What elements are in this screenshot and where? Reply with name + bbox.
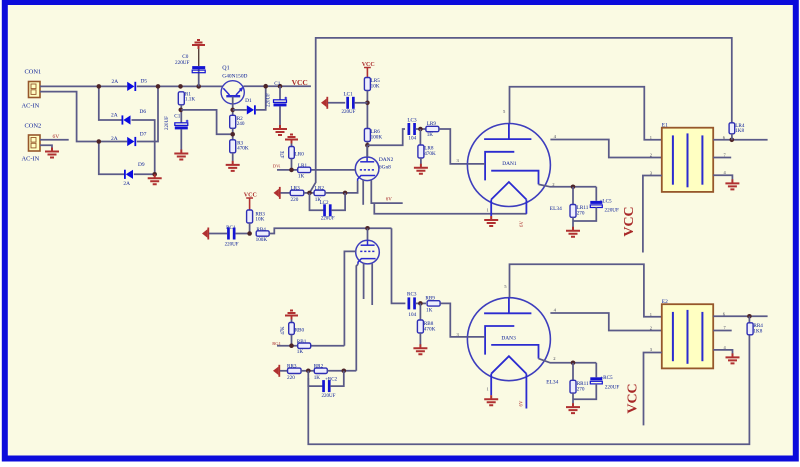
- svg-text:6V: 6V: [520, 221, 525, 227]
- wire C1b to ground: [279, 106, 281, 125]
- svg-text:220UF: 220UF: [605, 384, 620, 390]
- wire E2 pin3 down: [644, 353, 662, 426]
- wire port to LC1: [328, 102, 345, 104]
- svg-text:470K: 470K: [424, 151, 436, 157]
- svg-text:1K8: 1K8: [753, 328, 762, 334]
- svg-text:CON2: CON2: [25, 123, 42, 130]
- wire C1b stub: [279, 86, 281, 100]
- ground C1 output: [273, 125, 287, 135]
- svg-text:VCC: VCC: [626, 383, 641, 413]
- connector CON1: [29, 82, 41, 98]
- ground E1 pin4: [725, 179, 739, 189]
- power symbol above C0: [192, 40, 205, 49]
- wire C1 to ground: [180, 129, 182, 150]
- svg-text:104: 104: [408, 136, 416, 142]
- wire DAN2 heater right: [371, 180, 402, 203]
- wire RR11 stub: [572, 363, 574, 381]
- svg-text:1K: 1K: [297, 349, 304, 355]
- wire DAN3 grid stub: [467, 336, 485, 338]
- wire RB0 to grid row: [291, 335, 293, 346]
- junction RR11 top: [571, 361, 576, 366]
- resistor LR6: [364, 129, 370, 142]
- wire RB0 top: [291, 320, 293, 323]
- junction C0 tap: [196, 84, 201, 89]
- svg-text:220UF: 220UF: [605, 207, 620, 213]
- transformer E1: [662, 128, 713, 192]
- wire DAN1 anode loop: [510, 87, 662, 140]
- wire AC2 drop to D9: [99, 142, 124, 175]
- wire R1 to C1: [180, 105, 182, 123]
- svg-text:220UF: 220UF: [175, 60, 190, 66]
- wire D5 out: [137, 85, 181, 87]
- connector CON2: [29, 135, 41, 151]
- wire LC5 bottom: [573, 207, 596, 221]
- svg-text:AC-IN: AC-IN: [22, 103, 40, 110]
- svg-text:6V: 6V: [386, 198, 393, 203]
- wire DAN2 heater left: [362, 180, 364, 205]
- wire RR11 bottom: [572, 393, 574, 403]
- junction LR3 LR2: [307, 191, 312, 196]
- wire DAN1 g2 to E1 pin2: [550, 140, 661, 158]
- svg-text:2A: 2A: [111, 136, 118, 142]
- wire DAN3 anode loop: [510, 264, 662, 317]
- wire RR4 stub: [748, 316, 750, 323]
- resistor LR9: [426, 126, 439, 131]
- wire divider feedback: [181, 110, 232, 134]
- junction plate node lower: [365, 226, 370, 231]
- wire C0 stub: [198, 68, 200, 86]
- svg-text:470K: 470K: [424, 327, 436, 333]
- svg-text:10K: 10K: [371, 84, 380, 90]
- svg-text:DAN1: DAN1: [502, 161, 517, 167]
- capacitor LC1: [346, 97, 354, 109]
- svg-text:D9: D9: [138, 162, 145, 168]
- wire RC5 bottom: [573, 384, 596, 400]
- tube DAN3: [467, 298, 550, 409]
- svg-text:D1: D1: [245, 98, 252, 104]
- wire E1 pin7 out: [713, 157, 731, 159]
- capacitor LC5: [590, 201, 602, 208]
- svg-text:G40N150D: G40N150D: [222, 73, 247, 79]
- wire CON2 pin1 6V: [40, 139, 69, 141]
- ground DAN1 heater: [484, 216, 498, 226]
- port input lower: [202, 228, 209, 240]
- wire DAN3 cathode out: [539, 359, 597, 363]
- wire DAN2 plate up: [366, 145, 368, 157]
- wire E2 pin6 out: [713, 315, 767, 317]
- svg-text:2: 2: [650, 153, 652, 158]
- diode D9: [124, 170, 133, 179]
- resistor R2: [230, 115, 236, 128]
- wire E1 pin6 out: [713, 139, 767, 141]
- port lower cathode: [273, 365, 280, 377]
- svg-text:1K: 1K: [298, 173, 305, 179]
- svg-text:6Gn8: 6Gn8: [379, 165, 391, 171]
- wire D7 up to output: [137, 86, 158, 141]
- wire LR11 stub: [572, 187, 574, 205]
- ground LR11: [566, 227, 580, 237]
- transistor Q1: [221, 81, 244, 104]
- svg-text:220: 220: [287, 375, 295, 381]
- wire LC5 stub: [595, 187, 597, 201]
- wire DAN4 grid: [344, 251, 355, 345]
- wire R2 to R3: [232, 128, 234, 140]
- wire RR3 to RR2: [301, 370, 314, 372]
- resistor LR5: [364, 78, 370, 91]
- resistor RR3: [288, 368, 302, 373]
- wire E1 pin3 down: [643, 176, 662, 253]
- junction RC3 RB9: [418, 301, 423, 306]
- svg-text:6V: 6V: [519, 400, 524, 406]
- capacitor RC1: [227, 228, 235, 240]
- svg-text:220UF: 220UF: [225, 243, 239, 248]
- svg-text:1K: 1K: [427, 132, 434, 138]
- ground LR8: [414, 164, 428, 174]
- tube DAN4: [356, 240, 380, 264]
- wire RC5 stub: [595, 363, 597, 378]
- svg-text:220UF: 220UF: [322, 394, 336, 399]
- svg-text:100K: 100K: [371, 135, 383, 141]
- wire to RC3 row: [392, 228, 406, 303]
- wire Q1 emitter out VCC rail: [243, 85, 311, 87]
- capacitor LC3: [408, 123, 416, 135]
- wire DAN3 g2 to E2 pin2: [550, 313, 661, 331]
- ground RR11: [566, 403, 580, 413]
- capacitor RC2: [322, 380, 330, 392]
- junction AC1: [97, 84, 102, 89]
- junction plate node upper: [365, 143, 370, 148]
- svg-text:270: 270: [577, 387, 585, 393]
- svg-text:220UF: 220UF: [342, 110, 356, 115]
- wire plate to LC3: [367, 129, 405, 145]
- diode D7: [127, 137, 136, 146]
- wire DAN4 heater left: [363, 263, 365, 299]
- svg-text:D5: D5: [141, 79, 148, 85]
- svg-text:CON1: CON1: [25, 69, 42, 76]
- resistor LR0: [289, 147, 295, 159]
- resistor RB4: [256, 231, 269, 236]
- wire LR4 bottom stub: [731, 134, 733, 140]
- resistor LR4: [729, 123, 735, 134]
- wire D6 down: [132, 120, 155, 174]
- ground C1 filter: [174, 150, 188, 160]
- ground RB8: [413, 344, 427, 354]
- wire LC2 loop: [310, 193, 324, 210]
- svg-text:VCC: VCC: [622, 206, 637, 236]
- junction RR4: [747, 314, 752, 319]
- wire grid row lower: [277, 345, 344, 347]
- wire RB8 stub: [419, 303, 421, 321]
- wire port to RC1: [209, 233, 227, 235]
- resistor RB8: [417, 320, 423, 333]
- wire E1 pin4 out: [713, 175, 732, 179]
- junction RC1 node: [247, 231, 252, 236]
- power symbol above LR0: [285, 135, 298, 144]
- svg-text:220UF: 220UF: [165, 116, 170, 130]
- ground rectifier: [148, 174, 162, 184]
- diode D6: [122, 115, 131, 124]
- wire LR0 top: [291, 144, 293, 147]
- resistor R1: [178, 92, 184, 105]
- svg-text:AC-IN: AC-IN: [22, 156, 40, 163]
- svg-text:1: 1: [487, 208, 489, 213]
- junction rectifier ground: [152, 172, 157, 177]
- ground E2 pin4: [726, 353, 740, 363]
- svg-text:+RC2: +RC2: [325, 377, 337, 382]
- svg-text:10K: 10K: [255, 217, 264, 223]
- resistor LR1: [298, 167, 311, 172]
- tube DAN1: [467, 124, 550, 217]
- wire RR2 to cathode node: [327, 370, 356, 372]
- power VCC tap lower: [246, 198, 253, 210]
- svg-text:220UF: 220UF: [321, 216, 335, 221]
- resistor LR11: [570, 205, 576, 218]
- junction cathode node lower: [342, 369, 347, 374]
- svg-text:1: 1: [650, 135, 652, 140]
- ground DAN3 heater: [484, 395, 498, 405]
- svg-text:LR0: LR0: [295, 152, 305, 158]
- capacitor C0: [192, 66, 205, 73]
- junction RR3 RR2: [306, 369, 311, 374]
- junction LC1 node: [365, 101, 370, 106]
- svg-text:DAN3: DAN3: [501, 335, 516, 341]
- resistor RR4: [747, 323, 753, 335]
- capacitor C1 output: [274, 97, 288, 107]
- wire LC3 to LR9: [415, 128, 426, 130]
- svg-text:C1: C1: [274, 81, 280, 87]
- wire DAN1 cathode out: [539, 184, 597, 186]
- diode D5: [127, 82, 136, 91]
- junction D1 VCC: [263, 84, 268, 89]
- wire E2 pin4 out: [713, 350, 732, 354]
- svg-text:220UF: 220UF: [266, 93, 271, 107]
- wire bottom feedback loop: [308, 335, 749, 445]
- wire LC1 to node: [354, 102, 367, 104]
- svg-text:C1: C1: [174, 113, 180, 119]
- tube DAN2: [355, 157, 379, 181]
- svg-text:EL34: EL34: [550, 206, 562, 212]
- resistor RR11: [570, 380, 576, 393]
- resistor LR3: [290, 190, 304, 195]
- svg-text:104: 104: [408, 312, 416, 318]
- wire DAN2 grid row: [277, 169, 355, 171]
- wire LR11 bottom: [572, 217, 574, 227]
- wire C0 top stub: [198, 45, 200, 66]
- svg-text:D6: D6: [140, 109, 147, 115]
- transformer E2: [662, 304, 713, 368]
- junction R2 R3: [230, 132, 235, 137]
- wire LR8 to ground: [420, 158, 422, 164]
- svg-text:1K: 1K: [426, 307, 433, 313]
- port input upper: [321, 97, 328, 109]
- wire D1 to VCC rail: [256, 86, 266, 110]
- junction AC2: [97, 139, 102, 144]
- resistor RB9: [427, 301, 440, 306]
- wire port to RR3: [280, 370, 288, 372]
- wire LR0 to grid row: [291, 159, 293, 170]
- wire DAN1 grid stub: [467, 163, 485, 165]
- capacitor LC2: [323, 204, 331, 216]
- svg-text:RC3: RC3: [407, 292, 417, 298]
- junction LC3 LR9: [418, 127, 423, 132]
- svg-text:1K8: 1K8: [735, 128, 744, 134]
- svg-text:DAN2: DAN2: [379, 157, 394, 163]
- junction cathode node upper: [343, 191, 348, 196]
- resistor LR8: [418, 145, 424, 158]
- port upper cathode: [274, 187, 281, 199]
- wire port to LR3: [281, 192, 291, 194]
- wire LR8 stub: [419, 129, 421, 146]
- wire E2 pin7 out: [713, 330, 732, 332]
- power symbol above RB0: [285, 311, 298, 320]
- capacitor C1 filter: [175, 120, 189, 130]
- wire LR5 to node: [366, 91, 368, 129]
- junction base D1: [230, 108, 235, 113]
- svg-text:2A: 2A: [123, 181, 130, 187]
- junction C1b: [278, 84, 283, 89]
- resistor R3: [230, 140, 236, 153]
- junction D7 output: [156, 84, 161, 89]
- junction LR11 top: [571, 185, 576, 190]
- wire RC2 loop right: [330, 371, 344, 386]
- wire CON2 pin2 to ground: [40, 145, 52, 147]
- svg-text:LC3: LC3: [407, 118, 417, 124]
- svg-text:470K: 470K: [237, 146, 249, 152]
- resistor RB1: [298, 343, 311, 348]
- svg-text:2A: 2A: [112, 79, 119, 85]
- svg-text:1.1K: 1.1K: [185, 97, 195, 103]
- svg-text:DVi: DVi: [273, 163, 281, 168]
- junction LR4: [730, 138, 735, 143]
- wire heater rail: [374, 203, 526, 214]
- wire RC2 loop: [308, 371, 322, 386]
- wire DAN4 heater right: [371, 264, 373, 305]
- svg-text:1: 1: [650, 312, 652, 317]
- wire DAN2 cathode: [345, 181, 358, 193]
- wire LR6 to plate node: [366, 142, 368, 158]
- svg-text:220: 220: [291, 197, 299, 203]
- svg-text:47K: 47K: [281, 326, 286, 335]
- svg-text:2: 2: [650, 326, 652, 331]
- wire Q1 base down: [232, 97, 234, 117]
- junction LR0 grid: [289, 168, 294, 173]
- wire LR3 to LR2: [304, 192, 315, 194]
- wire LC2 loop right: [331, 193, 345, 210]
- ground CON2: [45, 148, 59, 158]
- diode D1: [247, 105, 256, 114]
- svg-text:47E: 47E: [281, 151, 286, 159]
- svg-text:EL34: EL34: [546, 379, 558, 385]
- wire AC2: [40, 92, 127, 142]
- wire RC1 to node: [236, 233, 250, 235]
- wire RB3 to node: [249, 223, 251, 234]
- wire DAN4 cathode: [356, 264, 358, 371]
- svg-text:2A: 2A: [111, 112, 118, 118]
- wire base to D1: [233, 109, 247, 111]
- resistor RB0: [289, 323, 295, 335]
- svg-text:270: 270: [577, 210, 585, 216]
- junction RB0 grid: [289, 343, 294, 348]
- svg-text:1: 1: [487, 387, 489, 392]
- svg-text:D7: D7: [140, 132, 147, 138]
- resistor RB3: [247, 210, 253, 223]
- power VCC tap upper: [364, 68, 371, 78]
- svg-text:LC1: LC1: [344, 92, 354, 98]
- svg-text:RB0: RB0: [295, 328, 305, 334]
- wire RB4 to plate row: [269, 228, 391, 233]
- svg-text:100K: 100K: [256, 237, 268, 243]
- capacitor RC5: [590, 377, 602, 384]
- resistor RR2: [314, 368, 327, 373]
- svg-text:VCC: VCC: [292, 78, 308, 87]
- junction R1 top: [178, 84, 183, 89]
- ground R3: [226, 161, 240, 171]
- wire R3 to ground: [232, 153, 234, 161]
- wire RB9 to DAN3 grid: [440, 303, 467, 337]
- junction R1 bottom: [179, 108, 184, 113]
- wire RC3 to RB9: [415, 302, 426, 304]
- wire RB8 to ground: [419, 333, 421, 345]
- wire LR9 to DAN1 grid: [439, 129, 467, 164]
- capacitor RC3: [408, 297, 416, 309]
- wire DAN4 plate up: [367, 228, 369, 240]
- svg-text:1K: 1K: [314, 375, 321, 381]
- svg-text:Q1: Q1: [222, 65, 229, 71]
- wire AC1 drop to D6: [99, 86, 122, 120]
- wire AC1 top: [40, 85, 127, 87]
- wire D9 out: [134, 173, 155, 175]
- wire top feedback loop: [310, 38, 732, 193]
- wire raw DC rail: [181, 85, 223, 87]
- svg-text:240: 240: [237, 121, 245, 127]
- wire LR2 to cathode node: [325, 192, 345, 194]
- resistor LR2: [314, 190, 325, 195]
